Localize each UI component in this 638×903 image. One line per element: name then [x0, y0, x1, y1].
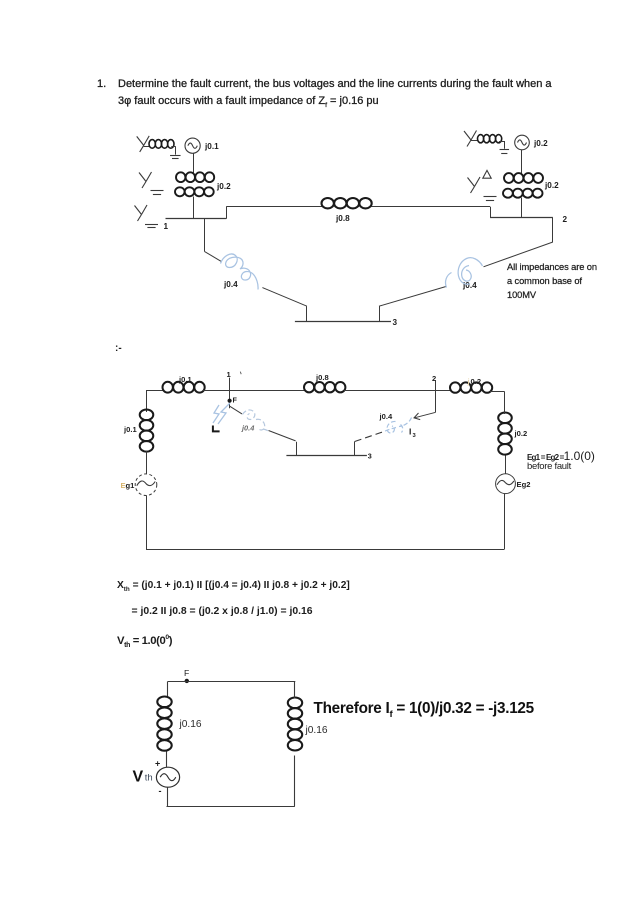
left vertical top: [167, 682, 169, 698]
blue scribble line 2-3: [446, 258, 483, 288]
fault dot F: [228, 399, 232, 403]
right branch dashed diagonal: [355, 432, 382, 441]
wire Vth to bottom: [167, 787, 169, 806]
line 2-3 drop to bus 3: [379, 306, 381, 321]
line 2-3 diagonal lower segment: [379, 287, 446, 307]
generator G1 neutral Y symbol: [137, 136, 144, 145]
blue lightning scribble at F: [213, 403, 230, 424]
svg-text:+: +: [155, 759, 160, 769]
blue loop scribble right branch: [384, 418, 412, 434]
step bus1 to line: [226, 207, 228, 219]
line 1-2 left segment: [226, 206, 322, 208]
node F dot: [185, 679, 189, 683]
transformer T1 top winding: [176, 172, 185, 182]
bus 3 bar: [295, 321, 391, 323]
blue loop scribble left branch: [243, 410, 269, 431]
step line to bus 2: [490, 207, 492, 218]
svg-text:j0.16: j0.16: [305, 725, 328, 736]
bus1 Y symbol: [135, 206, 142, 215]
line 1-3 diagonal upper segment: [204, 251, 221, 261]
current arrow shaft from node 2: [415, 412, 436, 418]
line reactor j0.8: [322, 198, 334, 208]
wire T1 to bus 1: [193, 197, 195, 219]
bus 3 bar (mid): [286, 455, 367, 457]
reactance coil j0.1 vertical: [140, 410, 154, 421]
T1 primary Y symbol: [139, 173, 146, 182]
svg-text:-: -: [159, 786, 162, 796]
source Eg2: [496, 474, 516, 494]
ground below bus1 Y: [145, 224, 158, 226]
generator G2 neutral coil: [471, 140, 478, 142]
source Vth: [156, 767, 179, 787]
wire T2 to bus 2: [521, 198, 523, 218]
reactance coil j0.2 (top right): [450, 382, 460, 392]
wire G1 to T1: [193, 153, 195, 173]
svg-text:V: V: [133, 769, 144, 786]
source Eg1 dashed circle: [135, 474, 157, 496]
fault branch diagonal lower segment: [269, 431, 296, 441]
transformer T2 top winding: [504, 173, 514, 183]
wire node1 span: [203, 390, 305, 392]
black L mark: [213, 426, 220, 432]
reactance coil j0.1 (top left): [163, 382, 173, 393]
T2 delta symbol: [483, 170, 491, 178]
wire coil to ground stub: [171, 146, 175, 148]
line 2-3 drop from bus 2: [552, 218, 554, 242]
thevenin coil j0.16 left: [157, 697, 171, 708]
generator G2 circle: [515, 135, 530, 150]
wire node2 span: [344, 390, 451, 392]
line 2-3 diagonal upper segment: [484, 242, 553, 267]
line 1-2 right segment: [372, 206, 491, 208]
ground below G2 coil: [500, 149, 510, 151]
ground below T1 Y: [151, 190, 164, 192]
fault branch drop: [296, 442, 298, 456]
right vertical lower: [294, 756, 296, 807]
fault coil j0.16 right: [288, 698, 302, 709]
bus 2 bar: [490, 217, 553, 219]
right branch drop: [354, 442, 356, 456]
svg-text:j0.16: j0.16: [179, 719, 202, 730]
node 2 tick: [435, 380, 437, 412]
bottom wire: [167, 806, 295, 808]
node 1 tick: [229, 378, 231, 409]
generator G1 circle: [185, 138, 200, 153]
top-left corner wire: [146, 390, 164, 392]
left vertical wire: [146, 390, 148, 412]
generator G2 neutral Y symbol: [464, 131, 471, 140]
top wire: [168, 681, 296, 683]
line 1-3 drop to bus 3: [306, 306, 308, 321]
wire coil to ground stub G2: [499, 141, 505, 143]
transformer T2 bottom winding: [503, 189, 513, 198]
svg-text:F: F: [184, 668, 189, 678]
T2 Y symbol: [468, 178, 475, 187]
fault branch diagonal upper segment: [229, 406, 242, 414]
ground below G1 coil: [170, 155, 181, 157]
wire to top-right corner: [490, 391, 504, 393]
generator G1 neutral coil: [144, 146, 150, 148]
tiny tick mark: [239, 372, 242, 375]
wire G2 to T2: [521, 150, 523, 174]
transformer T1 bottom winding: [175, 187, 185, 196]
reactance coil j0.8 (line): [304, 382, 314, 392]
wire Eg2 to coil: [505, 455, 507, 474]
right vertical top: [294, 682, 296, 699]
line 1-3 drop from bus 1: [204, 219, 206, 252]
svg-text:th: th: [145, 773, 153, 784]
reactance coil j0.2 vertical: [498, 413, 512, 424]
arrowhead: [414, 413, 420, 420]
wire coil to Vth: [166, 752, 168, 768]
wire coil to corner: [504, 391, 506, 414]
wire to Eg1: [146, 451, 148, 475]
blue scribble line 1-3: [221, 254, 259, 289]
right vertical wire lower: [504, 494, 506, 550]
bottom return wire: [146, 549, 504, 551]
line 1-3 diagonal lower segment: [262, 288, 307, 307]
bus 1 bar: [166, 218, 227, 220]
wire Eg1 to bottom: [146, 496, 148, 550]
ground below T2 Y: [484, 196, 497, 198]
